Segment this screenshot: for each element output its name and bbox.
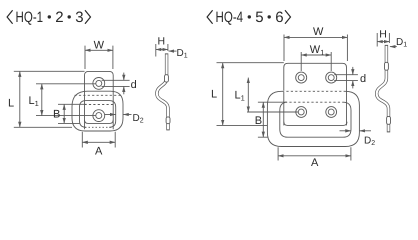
lower hole centerline (right) <box>247 111 298 113</box>
dimension W (right) <box>284 35 347 62</box>
dimension A (left) <box>82 132 115 148</box>
dimension B (left) <box>58 104 87 123</box>
svg-text:B: B <box>255 115 262 127</box>
dimension d (right) <box>334 75 358 81</box>
lower hole centerline <box>36 115 96 117</box>
dimension W1 (right) <box>301 52 331 71</box>
svg-text:D2: D2 <box>133 113 144 125</box>
plate outline (right front view) <box>284 63 347 125</box>
dimension L (left) <box>14 71 85 127</box>
upper hole right (right view) <box>326 72 337 83</box>
dimension H (left side view) <box>156 44 168 57</box>
ring outer outline (right) <box>267 91 359 146</box>
side view strip (left): outer outline <box>157 53 168 130</box>
dimension D2 (left) <box>105 114 116 116</box>
lower hole right (right view) <box>326 107 337 118</box>
dimension A (right) <box>278 147 351 160</box>
svg-text:L1: L1 <box>29 95 39 108</box>
svg-text:H: H <box>158 36 166 48</box>
bracket hidden edge (dashed, mid) <box>85 104 114 106</box>
side view hole slot (lower) <box>166 117 170 124</box>
upper hole left (right view) <box>296 72 307 83</box>
ring inner opening (right) <box>280 102 351 137</box>
svg-text:D1: D1 <box>177 48 188 60</box>
title HQ-1·2·3 <box>7 9 90 26</box>
dimension D1 (left side view) <box>169 50 177 52</box>
dimension B (right) <box>258 102 287 137</box>
dimension W (left) <box>85 46 113 69</box>
ring outer top hidden segment (dashed, right) <box>282 90 345 92</box>
svg-text:D1: D1 <box>396 37 407 49</box>
dimension H (right side view) <box>377 33 389 47</box>
svg-text:W1: W1 <box>310 44 325 57</box>
svg-text:d: d <box>360 73 366 85</box>
upper hole centerline <box>36 83 96 85</box>
side view hole slot lower (right) <box>387 116 391 124</box>
svg-text:B: B <box>53 109 60 121</box>
side view strip (right): outer outline <box>377 45 389 132</box>
lower hole (left) <box>93 110 105 122</box>
ring inner top hidden segment (dashed, right) <box>285 101 344 103</box>
side view hole slot upper (right) <box>385 62 389 70</box>
dimension L1 (left) <box>41 84 43 116</box>
svg-text:d: d <box>131 79 137 91</box>
dimension D2 (right) <box>340 130 351 132</box>
side view hole slot (upper) <box>165 75 169 82</box>
svg-text:L: L <box>8 98 14 110</box>
upper hole (left) <box>93 78 105 90</box>
svg-text:A: A <box>95 146 103 158</box>
svg-text:W: W <box>94 40 105 52</box>
plate bottom hidden edge (dashed) <box>85 126 113 128</box>
dimension D1 (right side view) <box>390 46 397 48</box>
svg-text:A: A <box>311 157 319 169</box>
base bottom edge (left) <box>85 120 114 124</box>
svg-text:L: L <box>211 89 217 101</box>
svg-text:W: W <box>313 26 324 38</box>
base bottom edge (right) <box>284 122 347 126</box>
lower hole left (right view) <box>296 107 307 118</box>
ring inner opening (left) <box>80 101 116 128</box>
dimension L (right) <box>217 63 284 126</box>
ring outer outline (left) <box>72 91 123 131</box>
dimension d (left) <box>102 80 130 86</box>
svg-text:L1: L1 <box>235 90 245 103</box>
title HQ-4·5·6 <box>207 9 290 26</box>
svg-text:D2: D2 <box>364 136 375 148</box>
svg-text:H: H <box>379 28 387 40</box>
ring hidden edge (dashed, upper) <box>75 94 121 96</box>
plate outline (left front view) <box>85 71 114 129</box>
dimension L1 (right) <box>247 78 249 112</box>
